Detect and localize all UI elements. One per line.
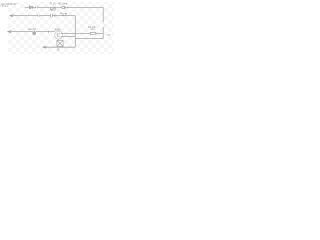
crossed box component bbox=[57, 40, 63, 46]
switch gap bbox=[103, 22, 105, 26]
wire bbox=[38, 6, 51, 8]
wire long vertical x75 bbox=[74, 16, 76, 48]
polarity bar bbox=[64, 6, 66, 9]
stub circle to box bbox=[58, 39, 60, 40]
wire row3 bbox=[36, 31, 55, 33]
rail A output bbox=[61, 32, 103, 34]
rail B emitter bbox=[61, 36, 75, 38]
svg-text:NE-2 lamp: NE-2 lamp bbox=[58, 3, 68, 6]
resistor R1 box bbox=[90, 33, 96, 35]
tick bbox=[67, 7, 69, 9]
svg-text:Sec 12V: Sec 12V bbox=[28, 28, 37, 31]
capacitor C2 bbox=[38, 15, 40, 17]
svg-text:F1 2A: F1 2A bbox=[50, 2, 56, 5]
wire vertical lower bbox=[102, 27, 104, 39]
input port arrow row2 bbox=[10, 15, 38, 17]
diode D1 bbox=[30, 6, 33, 9]
wire top rail right bbox=[65, 6, 103, 8]
grid background bbox=[8, 2, 114, 54]
lamp/indicator circle bbox=[62, 6, 65, 9]
svg-text:ohm: ohm bbox=[90, 28, 94, 31]
wire row2 right bbox=[52, 15, 75, 17]
lamp X component on row3 bbox=[33, 30, 36, 35]
wire bbox=[33, 6, 36, 8]
svg-text:out: out bbox=[107, 32, 111, 36]
capacitor up stub at node bbox=[60, 13, 67, 16]
transistor Q1 circle bbox=[55, 31, 63, 39]
tick junction bbox=[48, 31, 50, 33]
fuse F1 box bbox=[51, 7, 55, 10]
rail lower right bbox=[75, 38, 103, 40]
wire bbox=[55, 6, 62, 8]
capacitor C3 pair bbox=[50, 14, 56, 17]
svg-text:Hz line: Hz line bbox=[1, 5, 9, 8]
capacitor C1 bbox=[36, 6, 38, 8]
wire row2 mid bbox=[40, 15, 50, 17]
wire top rail left bbox=[25, 6, 30, 8]
input port arrow row3 bbox=[8, 31, 33, 33]
ground port arrow bottom bbox=[43, 46, 75, 48]
wire corner down right side bbox=[102, 7, 104, 22]
junction dot bbox=[62, 15, 63, 16]
